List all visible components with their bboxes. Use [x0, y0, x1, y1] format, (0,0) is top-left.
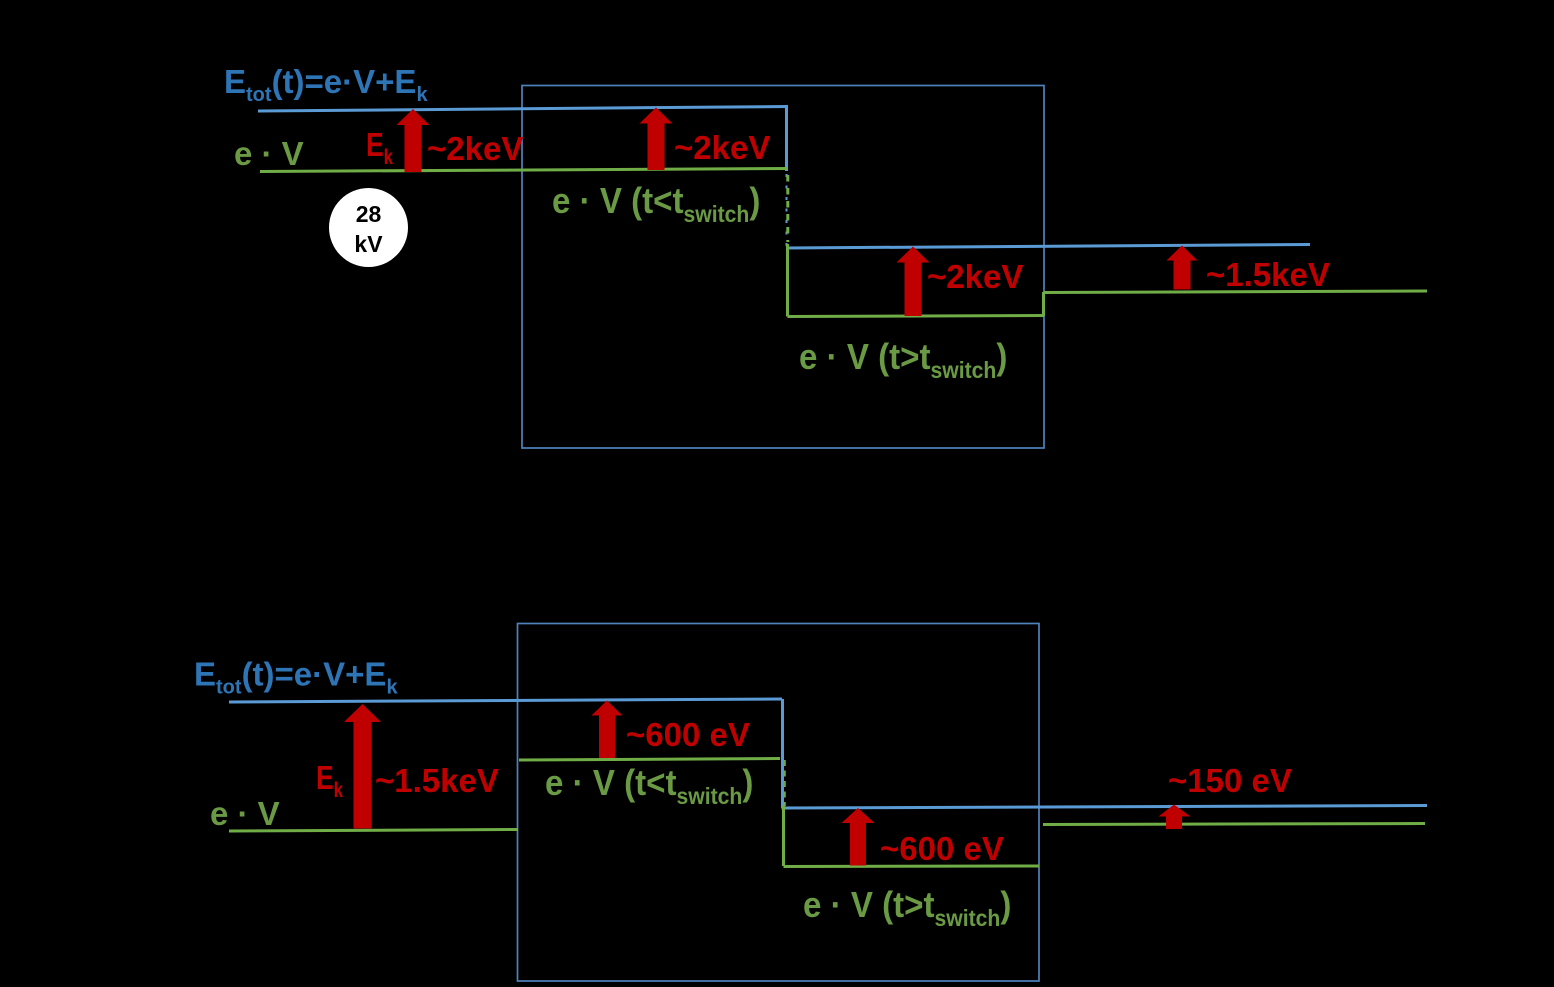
red arrow ~600 eV (bottom, lower step)	[842, 808, 875, 866]
blue energy line E_tot upper level (top diagram)	[258, 107, 788, 112]
svg-text:~150 eV: ~150 eV	[1168, 762, 1292, 799]
svg-text:kV: kV	[354, 231, 383, 257]
blue energy line E_tot lower level (bottom diagram)	[782, 806, 1428, 809]
svg-text:~1.5keV: ~1.5keV	[1206, 256, 1330, 293]
green step at box right edge (top diagram)	[1042, 292, 1045, 316]
label Etot(t)=e.V+Ek (bottom)	[194, 656, 398, 699]
red arrow ~150 eV (bottom right, small)	[1159, 805, 1191, 830]
svg-text:~1.5keV: ~1.5keV	[375, 762, 499, 799]
box (blue rectangle, bottom)	[518, 624, 1040, 982]
svg-text:~600 eV: ~600 eV	[626, 716, 750, 753]
svg-text:e · V: e · V	[234, 135, 304, 172]
label e . V (t&lt;t_switch) green (top box)	[552, 182, 760, 227]
green potential line e.V upper (top diagram)	[260, 169, 788, 172]
green dashed step vertical (top diagram)	[786, 175, 789, 242]
green solid step vertical (top diagram)	[786, 244, 789, 317]
svg-text:~2keV: ~2keV	[927, 258, 1023, 295]
label Ek (top, red)	[366, 127, 393, 169]
green potential line e.V left (bottom diagram)	[229, 830, 518, 832]
blue energy line E_tot upper level (bottom diagram)	[229, 699, 782, 702]
red arrow Ek ~1.5keV (bottom left, big)	[344, 704, 381, 829]
red arrow ~600 eV (bottom, in box upper)	[592, 701, 623, 759]
white circle 28 kV	[329, 188, 408, 267]
label Ek (bottom, red)	[316, 760, 343, 802]
green potential line outer right (top diagram)	[1044, 291, 1428, 293]
svg-text:~2keV: ~2keV	[427, 130, 523, 167]
svg-text:~2keV: ~2keV	[674, 129, 770, 166]
red arrow Ek ~2keV (top left)	[397, 109, 430, 172]
svg-text:28: 28	[356, 201, 382, 227]
green potential line e.V lower inside box (bottom diagram)	[784, 865, 1040, 869]
green potential line e.V lower inside box (top diagram)	[788, 316, 1045, 317]
green potential line outer right (bottom diagram)	[1043, 824, 1425, 825]
green potential line e.V inside box upper (bottom diagram)	[519, 759, 780, 761]
red arrow ~2keV (top, lower step)	[897, 247, 930, 317]
label e . V (t&gt;t_switch) green (top box lower)	[799, 338, 1007, 383]
blue step vertical (bottom diagram)	[781, 699, 784, 808]
blue step vertical (top diagram)	[785, 107, 788, 172]
label Etot(t)=e.V+Ek (top)	[224, 63, 428, 106]
green solid step vertical (bottom diagram)	[782, 806, 785, 866]
label e . V (t&lt;t_switch) green (bottom box)	[545, 764, 753, 809]
blue energy line E_tot lower level (top diagram)	[787, 245, 1311, 249]
svg-text:~600 eV: ~600 eV	[880, 830, 1004, 867]
svg-text:e · V: e · V	[210, 795, 280, 832]
label e . V (t&gt;t_switch) green (bottom box lower)	[803, 886, 1011, 931]
blue dashed step continuation (top diagram)	[786, 174, 788, 246]
box (blue rectangle, top)	[522, 86, 1044, 449]
red arrow ~2keV (top, in box left)	[640, 108, 673, 171]
red arrow ~1.5keV (top right)	[1167, 246, 1198, 290]
green dashed step vertical (bottom diagram)	[783, 760, 786, 806]
